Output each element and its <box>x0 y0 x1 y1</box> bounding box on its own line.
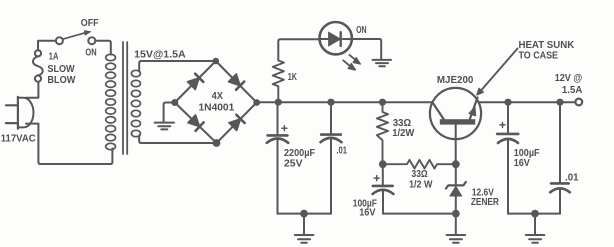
node bottom-right ground junction <box>531 210 539 218</box>
svg-text:SLOW: SLOW <box>47 64 75 75</box>
capacitor C3 100uF 16V (middle) <box>373 164 394 213</box>
switch S1 <box>56 31 95 45</box>
svg-text:.01: .01 <box>565 172 579 183</box>
wire main rail bridge to transistor <box>257 101 433 103</box>
wire secondary bottom to bridge bottom <box>139 136 216 144</box>
wire fuse to switch <box>38 41 56 51</box>
resistor R1 1K <box>273 60 284 102</box>
diode D2 (top-right edge) <box>229 74 245 90</box>
node bottom-left ground junction <box>300 210 308 218</box>
diode D1 (top-left edge) <box>188 74 204 90</box>
node bridge right vertex <box>253 99 260 106</box>
wire plug top to fuse <box>26 82 38 98</box>
LED indicator <box>320 22 353 54</box>
wire emitter rail to output <box>479 101 576 103</box>
svg-text:ZENER: ZENER <box>471 197 500 208</box>
wire bottom right section <box>508 213 560 215</box>
capacitor C1 2200uF 25V <box>267 102 288 213</box>
ground (LED) <box>373 60 392 66</box>
wire bottom left section <box>278 213 332 215</box>
diode D3 (bottom-left edge) <box>188 115 204 131</box>
node rail/1K/2200uF junction <box>275 99 282 106</box>
wire LED to ground <box>352 39 381 59</box>
ground (left section) <box>295 214 314 243</box>
svg-text:16V: 16V <box>514 158 530 169</box>
node bridge left vertex <box>171 99 178 106</box>
node rail/.01 junction <box>327 99 334 106</box>
heat sunk callout arrow <box>477 49 518 96</box>
wire secondary top to bridge top <box>139 61 216 72</box>
plug P1 117VAC <box>6 97 33 129</box>
svg-text:.01: .01 <box>336 146 347 157</box>
wire 1K top <box>278 39 319 60</box>
svg-text:117VAC: 117VAC <box>1 134 36 145</box>
svg-text:TO CASE: TO CASE <box>519 51 559 62</box>
svg-text:4X: 4X <box>212 91 224 102</box>
svg-text:33Ω: 33Ω <box>412 169 428 180</box>
svg-text:1N4001: 1N4001 <box>199 102 235 113</box>
svg-text:2200µF: 2200µF <box>284 148 315 159</box>
bridge rectifier 4X 1N4001 diamond <box>175 61 257 143</box>
node bridge top vertex <box>213 58 220 65</box>
transformer T1 core <box>123 42 127 154</box>
capacitor C2 .01 (left) <box>321 102 342 213</box>
node bridge bottom vertex <box>213 139 221 147</box>
zener diode D5 12.6V <box>446 164 466 213</box>
fuse F1 1A SLOW BLOW <box>33 50 43 81</box>
svg-text:15V@1.5A: 15V@1.5A <box>134 50 186 61</box>
diode D4 (bottom-right edge) <box>229 115 245 131</box>
svg-text:BLOW: BLOW <box>47 75 76 86</box>
resistor R2 33ohm 1/2W (vertical) <box>377 102 388 164</box>
ground (bridge) <box>155 123 174 130</box>
node 33ohm bottom junction <box>379 160 387 168</box>
svg-text:MJE200: MJE200 <box>437 75 474 86</box>
wire bridge left to ground <box>164 103 175 122</box>
ground (zener) <box>447 214 466 243</box>
node rail/.01 right junction <box>556 99 563 106</box>
svg-text:1A: 1A <box>49 51 59 62</box>
wire bottom middle section <box>383 213 456 215</box>
transformer T1 primary winding <box>106 54 116 149</box>
wire primary bottom return <box>38 124 112 164</box>
resistor R3 33ohm 1/2W (horizontal) <box>383 160 456 169</box>
svg-text:1K: 1K <box>288 72 298 83</box>
svg-text:ON: ON <box>85 48 96 59</box>
wire plug bottom stub <box>26 123 38 125</box>
svg-text:HEAT SUNK: HEAT SUNK <box>519 40 575 51</box>
svg-text:1/2W: 1/2W <box>392 128 414 139</box>
wire switch to transformer primary <box>95 41 111 55</box>
capacitor C4 100uF 16V (right) <box>497 102 518 213</box>
capacitor C5 .01 (right) <box>550 102 570 213</box>
node rail/33ohm junction <box>379 99 386 106</box>
svg-text:1.5A: 1.5A <box>562 85 582 96</box>
svg-text:OFF: OFF <box>81 18 99 29</box>
svg-text:16V: 16V <box>359 207 376 218</box>
LED light arrows <box>343 55 360 70</box>
node zener bottom junction <box>452 210 460 218</box>
node zener/base junction <box>452 160 460 168</box>
svg-text:25V: 25V <box>284 159 303 170</box>
ground (right section) <box>526 214 545 243</box>
output terminal 12V@1.5A <box>575 99 582 106</box>
node rail/100uF right junction <box>504 99 511 106</box>
transistor Q1 MJE200 <box>430 88 481 164</box>
svg-text:1/2 W: 1/2 W <box>409 180 433 191</box>
svg-text:12V @: 12V @ <box>555 73 583 84</box>
transformer T1 secondary winding <box>131 70 140 136</box>
svg-text:ON: ON <box>356 25 367 36</box>
